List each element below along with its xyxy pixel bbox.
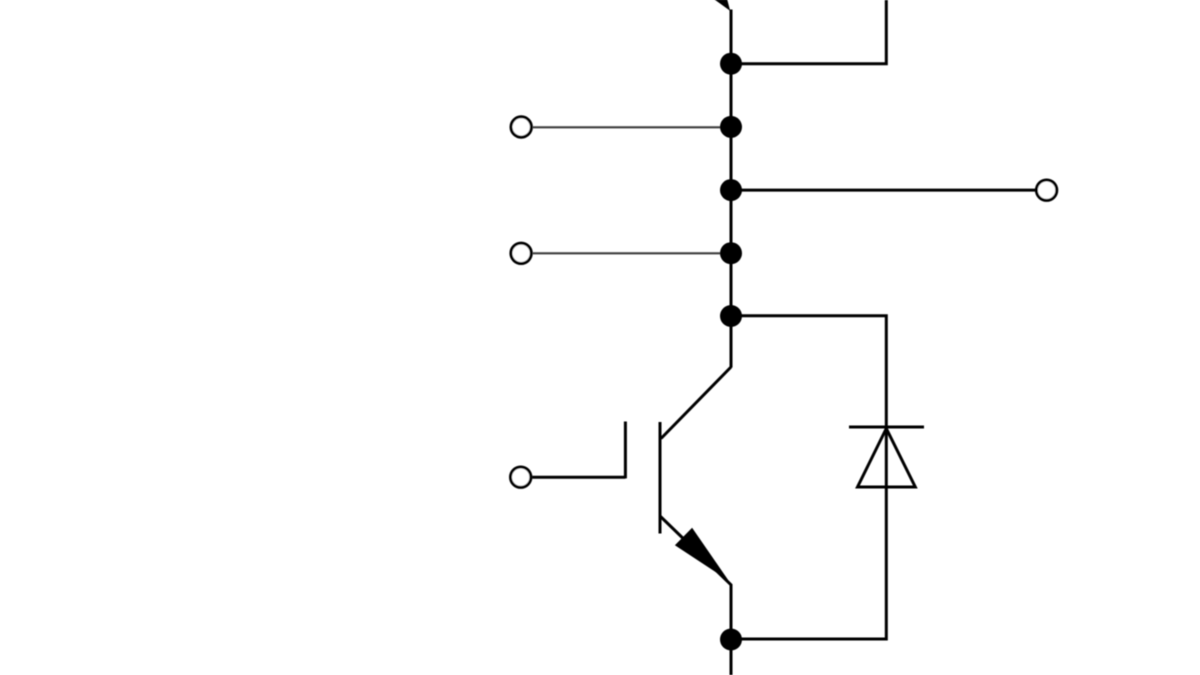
junction J4 <box>720 242 742 264</box>
diode D2 triangle <box>858 429 916 488</box>
transistor Q2 collector diagonal <box>661 367 731 439</box>
terminal T3 <box>511 243 531 263</box>
transistor Q2 body bar <box>659 422 662 534</box>
junction J2 <box>720 116 742 138</box>
wire: T3 to J4 <box>533 252 731 254</box>
transistor Q2 gate bar <box>624 422 627 479</box>
terminal T2 <box>1036 180 1056 200</box>
transistor Q1 emitter arrow (upper IGBT, cut off at top edge) <box>715 0 731 11</box>
junction J3 <box>720 179 742 201</box>
wire: emitter to J6 and bottom edge <box>730 584 733 675</box>
wire: gate lead <box>532 476 625 479</box>
transistor Q2 emitter diagonal <box>660 516 731 585</box>
junction J1 <box>720 53 742 75</box>
wire: J3 to T2 <box>731 189 1035 192</box>
transistor Q2 emitter arrow <box>675 528 729 581</box>
diode D2 cathode bar <box>849 426 924 429</box>
wire: J5 to diode branch, down through D2, back to J6 <box>731 316 886 639</box>
terminal T4 (gate) <box>511 467 531 487</box>
wire: main vertical bus <box>730 10 733 368</box>
wire: T1 to J2 <box>533 126 731 128</box>
junction J6 <box>720 629 742 651</box>
junction J5 <box>720 305 742 327</box>
wire: upper diode branch vertical and corner to J1 <box>731 0 886 64</box>
terminal T1 <box>511 117 531 137</box>
